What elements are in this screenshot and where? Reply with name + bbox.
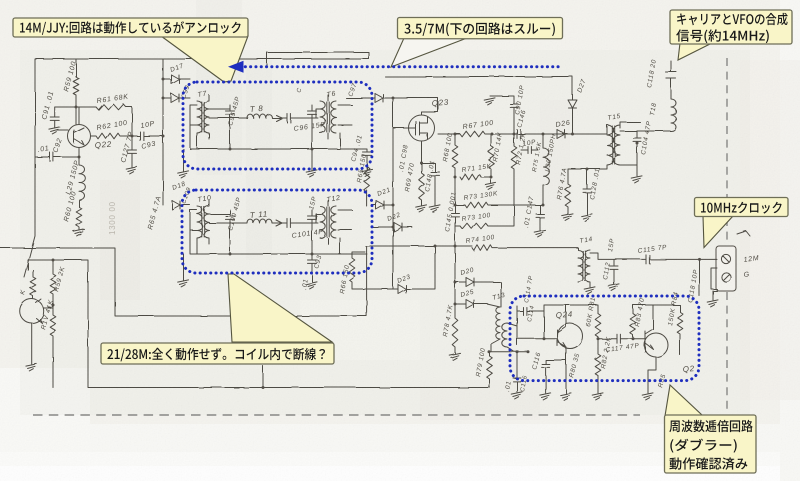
svg-text:Q24: Q24 bbox=[555, 310, 573, 320]
svg-text:Q2: Q2 bbox=[682, 364, 695, 374]
svg-text:G: G bbox=[743, 271, 750, 279]
svg-text:T 11: T 11 bbox=[249, 209, 268, 220]
svg-text:1300 00: 1300 00 bbox=[108, 201, 117, 235]
svg-text:T 8: T 8 bbox=[249, 104, 263, 114]
svg-text:Q22: Q22 bbox=[94, 140, 112, 150]
svg-text:Q23: Q23 bbox=[431, 98, 449, 108]
